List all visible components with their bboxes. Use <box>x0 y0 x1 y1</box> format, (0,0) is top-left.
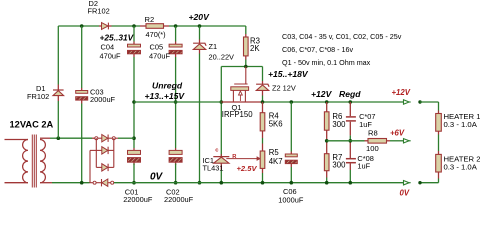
wire C02 to 0V rail <box>175 162 177 165</box>
svg-text:300: 300 <box>332 161 346 170</box>
junction R5 bottom <box>261 181 265 185</box>
svg-text:+25..31V: +25..31V <box>100 33 135 43</box>
wire C01 to 0V rail <box>133 162 135 165</box>
wire lead C01 top <box>133 148 135 150</box>
wire lead IC1 cathode <box>220 154 222 156</box>
resistor HEATER 2 load <box>436 154 442 172</box>
svg-text:22000uF: 22000uF <box>123 195 153 204</box>
wire AC1 to bridge <box>58 137 92 139</box>
diode bridge D-a <box>102 135 108 142</box>
wire R4 to R5 <box>262 131 264 138</box>
node +12V output arrow <box>404 99 410 104</box>
junction IC1 anode 0V <box>220 181 224 185</box>
wire +20V rail down to R3 <box>245 26 247 34</box>
wire D-b anode L-lead <box>90 149 102 151</box>
capacitor C05 470uF <box>169 44 182 47</box>
svg-text:FR102: FR102 <box>27 92 49 101</box>
wire +12V rail down to R6 <box>326 102 328 112</box>
wire R6 to R7 junction <box>326 130 328 154</box>
svg-text:0V: 0V <box>400 188 410 197</box>
svg-text:+20V: +20V <box>189 12 211 22</box>
svg-text:FR102: FR102 <box>88 6 110 15</box>
wire D-c anode L-lead <box>96 166 102 168</box>
svg-text:0V: 0V <box>150 172 164 183</box>
junction C03 bottom <box>80 181 84 185</box>
junction C06 bottom <box>290 181 294 185</box>
wire gate lead drop <box>245 67 247 85</box>
svg-text:0.3 - 1.0A: 0.3 - 1.0A <box>444 163 478 172</box>
wire heater top <box>420 101 439 103</box>
diode bridge D-c <box>102 164 108 171</box>
wire D1 anode to AC1 <box>57 96 59 101</box>
wire C03 to 0V <box>81 100 83 103</box>
svg-text:2K: 2K <box>250 44 260 53</box>
junction R3 gate <box>244 65 248 69</box>
capacitor C06 1000uF <box>285 154 297 157</box>
wire R8 to +6V arrow <box>387 140 391 142</box>
junction C05 top <box>174 24 178 28</box>
wire gate node to Z2 <box>262 67 264 82</box>
junction Z1 bottom <box>198 181 202 185</box>
node +6V output arrow <box>404 138 410 143</box>
junction source R4 node <box>261 100 265 104</box>
wire +25V node down to C04 <box>133 26 135 42</box>
svg-text:IRFP150: IRFP150 <box>222 110 253 119</box>
wire R3 to gate node <box>245 56 247 60</box>
wire +12V rail down to C06 <box>290 102 292 152</box>
wire gate node horizontal <box>221 66 262 68</box>
wire D-b cathode lead <box>108 149 114 151</box>
resistor HEATER 1 load <box>436 114 442 132</box>
svg-text:+2.5V: +2.5V <box>237 164 258 173</box>
svg-text:R8: R8 <box>368 129 378 138</box>
svg-text:470(*): 470(*) <box>146 30 166 39</box>
junction C02 top unreg rail <box>174 100 178 104</box>
junction C06 top <box>290 100 294 104</box>
wiper arrow into R5 <box>257 157 260 161</box>
wire +20V node down to Z1 <box>199 26 201 40</box>
wire +12V rail down to C07 <box>349 102 351 116</box>
resistor R6 300 <box>324 112 329 130</box>
wire +20V rail <box>169 25 246 27</box>
transformer T1 core <box>31 135 33 188</box>
junction C04 top <box>132 24 136 28</box>
junction D1-AC1 <box>57 136 61 140</box>
wire D-c cathode lead <box>108 166 114 168</box>
wire lead R2 left <box>140 25 146 27</box>
pin bridge + right <box>112 137 115 140</box>
wire D2 to +25V node <box>108 25 112 27</box>
svg-text:1uF: 1uF <box>357 162 370 171</box>
wire node A down to D1 <box>57 26 59 85</box>
capacitor C04 470uF <box>128 44 141 47</box>
svg-text:Regd: Regd <box>339 89 361 99</box>
wire primary bottom lead <box>5 182 29 184</box>
wire bridge AC2 segment <box>90 182 102 184</box>
svg-text:TL431: TL431 <box>203 163 224 172</box>
resistor R7 300 <box>324 154 329 171</box>
junction C02 bottom <box>174 181 178 185</box>
junction C07 C08 mid <box>349 139 353 143</box>
wire +12V regulated rail <box>263 101 404 103</box>
svg-text:5K6: 5K6 <box>269 120 283 129</box>
wire +20V node down to C05 <box>175 26 177 42</box>
wire bridge AC1 segment <box>96 137 102 139</box>
svg-text:2000uF: 2000uF <box>90 95 116 104</box>
wire C08 to 0V rail <box>349 163 351 170</box>
transistor Q1 substrate arrow <box>239 91 243 95</box>
wire top rail node A <box>58 25 99 27</box>
svg-text:470uF: 470uF <box>100 51 121 60</box>
junction R6 R7 mid <box>325 139 329 143</box>
wire C07 to mid junction <box>349 122 351 136</box>
capacitor C03 2000uF <box>76 91 88 94</box>
wire secondary top lead to node AC1 <box>40 137 50 139</box>
wire node A down to C03 <box>81 26 83 88</box>
transistor Q1 source leg <box>244 90 246 102</box>
transformer T1 primary winding <box>23 140 28 183</box>
resistor R2 470(*) <box>146 24 164 29</box>
wire R5 to 0V rail <box>262 169 264 174</box>
svg-text:Z1: Z1 <box>209 42 218 51</box>
junction C03 top <box>80 24 84 28</box>
wire D-a cathode to + node <box>108 137 118 139</box>
svg-text:C06, C*07, C*08 - 16v: C06, C*07, C*08 - 16v <box>282 45 354 54</box>
wire IC1 anode to 0V <box>220 163 222 169</box>
wire C06 to 0V rail <box>290 164 292 167</box>
wire R6R7 junction to R8 <box>327 140 365 142</box>
wire bridge cathode vertical <box>113 138 115 167</box>
pin bridge 0V right <box>111 181 114 184</box>
svg-text:C05: C05 <box>150 43 164 52</box>
node 0V output arrow <box>404 180 410 185</box>
svg-text:4K7: 4K7 <box>269 157 283 166</box>
svg-text:Unregd: Unregd <box>152 81 183 91</box>
capacitor C*07 1uF <box>346 116 356 118</box>
wire lead R2 right <box>164 25 170 27</box>
transistor Q1 channel bar <box>231 87 249 91</box>
wire lead C02 top <box>175 148 177 150</box>
transistor Q1 drain leg <box>232 90 234 102</box>
junction C07 top <box>349 100 353 104</box>
capacitor C01 22000uF <box>128 150 141 154</box>
wire 0V rail <box>114 182 404 184</box>
junction unregulated rail start <box>132 100 136 104</box>
svg-text:20..22V: 20..22V <box>209 52 235 61</box>
resistor R3 2K <box>244 37 249 56</box>
transformer T1 secondary winding <box>40 140 45 183</box>
pin bridge AC1 left <box>95 137 98 140</box>
svg-text:+12V: +12V <box>392 88 411 97</box>
junction R6 top <box>325 100 329 104</box>
junction heater 0V terminal <box>418 181 421 184</box>
svg-text:+12V: +12V <box>311 89 333 99</box>
wire source node down to R4 <box>262 102 264 113</box>
svg-text:C03, C04 - 35 v, C01, C02, C05: C03, C04 - 35 v, C01, C02, C05 - 25v <box>282 32 402 41</box>
wire secondary bottom lead / 0V rail left <box>40 182 52 184</box>
svg-text:+6V: +6V <box>390 128 405 137</box>
svg-text:Q1 - 50v min, 0.1 Ohm max: Q1 - 50v min, 0.1 Ohm max <box>282 58 371 67</box>
zener Z1 20..22V <box>193 43 206 46</box>
wire heater1 to heater2 <box>438 131 440 134</box>
svg-text:100: 100 <box>366 144 379 153</box>
junction bridge positive <box>132 136 136 140</box>
svg-text:300: 300 <box>332 120 346 129</box>
junction C08 bottom <box>349 181 353 185</box>
resistor R8 100 <box>368 139 387 144</box>
junction C01 bottom <box>132 181 136 185</box>
transistor Q1 gate bar <box>234 83 247 85</box>
resistor R4 5K6 <box>260 113 265 131</box>
wire heater2 to 0V terminal <box>438 172 440 179</box>
wire IC1 ref line to R5 wiper <box>226 158 257 160</box>
svg-text:R2: R2 <box>145 15 155 24</box>
wire R7 to 0V rail <box>326 171 328 178</box>
svg-text:22000uF: 22000uF <box>164 195 194 204</box>
junction R7 bottom <box>325 181 329 185</box>
junction Z1 top <box>198 24 202 28</box>
wire primary top lead <box>5 139 29 141</box>
diode bridge D-d <box>102 179 108 186</box>
svg-text:12VAC 2A: 12VAC 2A <box>10 120 54 130</box>
wire C05 to unregulated rail <box>175 54 177 57</box>
svg-text:C04: C04 <box>101 43 115 52</box>
wire source segment <box>221 101 262 103</box>
svg-text:+15..+18V: +15..+18V <box>268 69 309 79</box>
capacitor C02 22000uF <box>169 150 182 154</box>
wire Z2 anode to source rail <box>262 91 264 96</box>
svg-text:1000uF: 1000uF <box>278 195 304 204</box>
svg-text:0.3 - 1.0A: 0.3 - 1.0A <box>444 120 478 129</box>
svg-text:R5: R5 <box>269 148 280 157</box>
junction heater +12V terminal <box>418 100 421 103</box>
wire Z1 anode to 0V rail <box>199 50 201 54</box>
wire unregulated rail <box>134 101 221 103</box>
wire C04 to unregulated rail <box>133 54 135 57</box>
diode D2 FR102 <box>102 23 109 30</box>
diode D1 FR102 <box>53 89 64 91</box>
resistor R5 4K7 <box>260 151 265 168</box>
diode bridge D-b <box>102 147 108 154</box>
wire gate node left vertical to IC1 cathode <box>220 67 222 157</box>
svg-text:Z2 12V: Z2 12V <box>272 84 296 93</box>
svg-text:+13..+15V: +13..+15V <box>145 91 186 101</box>
capacitor C*08 1uF <box>346 158 356 160</box>
pin bridge AC2 left <box>93 181 96 184</box>
zener Z2 12V <box>256 84 269 87</box>
svg-text:470uF: 470uF <box>149 51 170 60</box>
op-amp IC1 TL431 shunt regulator <box>213 156 229 158</box>
junction gate vertical at unreg rail <box>220 100 224 104</box>
